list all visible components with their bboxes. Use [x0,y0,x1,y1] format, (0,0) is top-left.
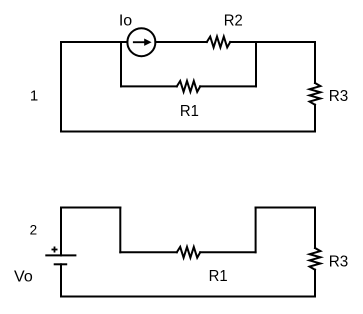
current source arrow [133,39,152,46]
wire: circuit1 bottom [61,131,315,133]
svg-text:R3: R3 [329,253,349,270]
wire: circuit2 battery top lead [60,208,62,256]
wire: circuit1 right bottom (R3 to corner) [314,105,316,132]
wire: circuit2 bottom [61,296,315,298]
wire: circuit2 right step up [255,208,257,253]
wire: circuit1 top middle (source to R2) [155,41,206,43]
wire: circuit2 top-right horizontal [256,207,315,209]
resistor R2 [207,37,230,48]
wire: branch right vertical (R1 branch to node) [255,42,257,86]
resistor R1 (circuit2) [177,247,200,258]
wire: circuit1 right top (to R3) [314,42,316,83]
svg-text:Vo: Vo [14,269,33,286]
battery V1 negative plate [54,263,67,265]
wire: circuit1 top-left segment [61,41,127,43]
wire: circuit1 left side [60,42,62,132]
wire: R1 branch left horizontal [121,85,177,87]
wire: circuit1 top right (R2 to corner) [230,41,315,43]
svg-text:1: 1 [30,87,38,104]
svg-text:R1: R1 [209,268,228,285]
wire: circuit2 right side to R3 [314,208,316,249]
wire: circuit2 R1 branch right [200,251,255,253]
svg-text:R3: R3 [329,88,349,105]
svg-text:R1: R1 [180,103,199,120]
wire: circuit2 battery bottom lead [60,264,62,296]
wire: circuit2 right bottom [314,270,316,297]
wire: branch left vertical (node to R1 branch) [120,42,122,86]
wire: circuit2 top-left horizontal [61,207,120,209]
resistor R1 (circuit1) [177,81,200,92]
battery plus sign [52,247,58,253]
current source U1 circle [127,28,155,56]
wire: circuit2 left step down [119,208,121,253]
svg-text:Io: Io [119,13,132,30]
battery V1 positive plate [45,254,76,256]
svg-text:2: 2 [30,223,38,238]
resistor R3 (circuit2) [310,248,321,270]
wire: circuit2 R1 branch left [120,251,177,253]
resistor R3 (circuit1) [310,83,321,105]
svg-text:R2: R2 [224,13,243,30]
wire: R1 branch right horizontal [200,85,256,87]
